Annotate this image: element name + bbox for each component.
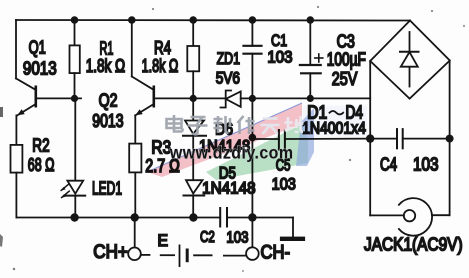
wire bridge left leg down: [369, 61, 371, 215]
svg-text:Q1: Q1: [29, 38, 46, 58]
wire R2 bottom to ground rail: [15, 173, 17, 218]
LED LED1: [60, 181, 85, 199]
wire dashed battery line: [141, 254, 246, 257]
wire node B down to D6: [192, 98, 194, 120]
svg-text:R3: R3: [151, 138, 171, 158]
svg-text:R2: R2: [32, 136, 49, 156]
node top rail junction above Q2 collector: [128, 16, 136, 24]
svg-text:68 Ω: 68 Ω: [28, 155, 55, 175]
wire node C down to C5 junction: [251, 98, 253, 217]
wire left vertical to Q1 collector: [15, 20, 17, 78]
ground: [280, 218, 305, 242]
wire Q1 base to node A: [36, 97, 81, 99]
node top rail junction above R4: [189, 16, 197, 24]
diode D5: [184, 180, 205, 195]
zener diode ZD1: [193, 91, 252, 108]
svg-text:103: 103: [267, 48, 292, 67]
wire R3 bottom to ground rail: [134, 172, 136, 217]
wire CH+ drop: [134, 218, 136, 248]
svg-text:103: 103: [413, 155, 439, 175]
wire bridge right leg down: [449, 61, 451, 216]
node top rail junction above C1: [249, 16, 257, 24]
svg-text:C4: C4: [380, 155, 397, 175]
svg-text:CH-: CH-: [261, 243, 291, 264]
svg-text:LED1: LED1: [92, 179, 122, 199]
svg-text:1N4148: 1N4148: [202, 179, 256, 198]
svg-text:100µF: 100µF: [327, 50, 366, 70]
wire Q2 collector vertical: [131, 20, 133, 77]
svg-text:9013: 9013: [92, 111, 123, 131]
svg-text:www.dzdiy.com: www.dzdiy.com: [169, 143, 294, 163]
node G (C4 right / jack right): [446, 135, 454, 143]
capacitor C2: [220, 208, 293, 227]
node ground rail below LED1: [70, 213, 78, 221]
watermark chinese characters: [167, 115, 304, 134]
wire mid rail node C to node D: [252, 97, 310, 99]
node C (ZD1 / C1 / C5 branch): [249, 95, 256, 102]
svg-text:103: 103: [272, 175, 296, 194]
svg-text:JACK1(AC9V): JACK1(AC9V): [364, 235, 463, 255]
diode D6: [183, 121, 206, 136]
svg-text:CH+: CH+: [93, 242, 128, 263]
node D (C3 bottom on mid rail): [307, 95, 314, 102]
resistor R1: [70, 20, 80, 98]
terminal CH+: [128, 248, 141, 261]
terminal CH-: [246, 218, 259, 260]
jack JACK1: [370, 198, 449, 236]
resistor R3: [129, 144, 141, 173]
svg-text:R4: R4: [154, 38, 171, 58]
bridge rectifier D1-D4 diamond: [370, 21, 450, 99]
capacitor C1: [244, 20, 262, 98]
svg-text:25V: 25V: [332, 69, 358, 89]
node ground rail / CH- tap: [248, 213, 256, 221]
svg-text:C2: C2: [200, 229, 215, 246]
node ground rail below R3 / CH+ tap: [131, 213, 139, 221]
node F (C4 left / jack left): [366, 134, 374, 142]
wire LED1 cathode to ground rail: [74, 196, 76, 218]
svg-text:5V6: 5V6: [216, 69, 240, 88]
capacitor C5: [252, 130, 370, 150]
svg-text:Q2: Q2: [99, 91, 118, 111]
wire D6 to D5: [192, 136, 194, 181]
wire Q2 base to node B: [154, 97, 193, 99]
capacitor C3 electrolytic: [300, 20, 321, 98]
wire mid rail node D to bridge left leg: [310, 97, 370, 99]
watermark logo colored bands: [147, 103, 367, 180]
wire node A down to LED1: [74, 98, 76, 180]
svg-text:9013: 9013: [23, 59, 57, 79]
svg-text:1.8k Ω: 1.8k Ω: [86, 56, 126, 76]
svg-text:E: E: [158, 231, 169, 250]
resistor R2: [11, 145, 23, 173]
wire D5 to ground rail: [192, 196, 194, 218]
wire Q1 emitter down to R2: [15, 115, 17, 144]
svg-text:ZD1: ZD1: [217, 49, 240, 68]
battery E: [180, 245, 188, 266]
resistor R4: [187, 20, 199, 98]
node A (R1 bottom / Q1 base / LED1): [71, 95, 78, 102]
node E (C5 tap): [249, 134, 257, 142]
svg-text:103: 103: [226, 230, 248, 247]
polarity plus sign C3: [315, 54, 323, 62]
node ground rail below D5: [189, 213, 197, 221]
label D1~D4: [307, 103, 363, 123]
wire top rail: [16, 19, 410, 22]
node top rail junction above C3: [307, 16, 315, 24]
svg-text:1.8k Ω: 1.8k Ω: [142, 56, 179, 76]
svg-text:C3: C3: [337, 32, 355, 52]
wire ground rail: [16, 217, 220, 219]
wire Q2 emitter down to R3: [134, 115, 136, 143]
node top rail junction above R1: [71, 16, 79, 24]
node B (R4 bottom / Q2 base / ZD1 / D6): [190, 95, 197, 102]
transistor Q2: [132, 77, 154, 116]
transistor Q1: [16, 78, 36, 115]
capacitor C4: [370, 129, 449, 148]
